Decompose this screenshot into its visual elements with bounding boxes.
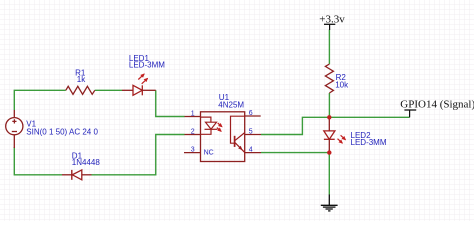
svg-text:4N25M: 4N25M bbox=[218, 100, 244, 109]
wire D1 to V1 bottom bbox=[14, 147, 62, 175]
op-to-coupler U1 box bbox=[201, 112, 245, 162]
ground bbox=[321, 195, 338, 211]
wire LED1 to U1 pin 1 bbox=[156, 90, 185, 116]
LED LED1 bbox=[122, 74, 156, 95]
wire V1 top to R1 bbox=[14, 90, 66, 110]
voltage source V1 bbox=[6, 110, 23, 148]
svg-text:GPIO14 (Signal): GPIO14 (Signal) bbox=[400, 99, 474, 111]
U1 internal LED bbox=[201, 117, 218, 134]
wire +3.3v to R2 bbox=[328, 30, 330, 65]
U1 pin 5 stub bbox=[245, 134, 261, 136]
svg-text:3: 3 bbox=[191, 147, 195, 154]
svg-text:10k: 10k bbox=[335, 81, 349, 90]
svg-text:1N4448: 1N4448 bbox=[72, 158, 101, 167]
svg-text:5: 5 bbox=[249, 129, 253, 136]
svg-text:LED-3MM: LED-3MM bbox=[351, 138, 387, 147]
U1 pin 3 stub bbox=[184, 152, 201, 154]
diode D1 bbox=[62, 170, 92, 180]
net label GPIO14 (Signal) bbox=[400, 99, 474, 118]
resistor R1 bbox=[66, 86, 95, 94]
resistor R2 bbox=[325, 64, 333, 93]
U1 pin 1 stub bbox=[185, 116, 201, 118]
wire U1 pin 5 to GPIO14 net bbox=[261, 117, 410, 134]
wire U1 pin 2 to D1 bbox=[92, 135, 185, 175]
svg-text:1k: 1k bbox=[77, 75, 86, 84]
wire R2 to node A bbox=[328, 93, 330, 117]
LED LED2 bbox=[324, 117, 346, 152]
svg-text:6: 6 bbox=[249, 110, 253, 117]
svg-text:LED-3MM: LED-3MM bbox=[129, 61, 165, 70]
power flag +3.3v bbox=[319, 14, 345, 30]
svg-text:NC: NC bbox=[204, 150, 214, 157]
svg-text:4: 4 bbox=[249, 147, 253, 154]
svg-text:1: 1 bbox=[191, 111, 195, 118]
U1 pin 2 stub bbox=[185, 134, 201, 136]
svg-text:2: 2 bbox=[191, 129, 195, 136]
U1 pin 6 stub bbox=[245, 115, 261, 117]
U1 internal emission arrows bbox=[218, 123, 222, 127]
U1 pin 4 stub bbox=[245, 152, 261, 154]
junction node A (R2/LED2/GPIO14) bbox=[327, 115, 331, 119]
wire U1 pin 4 to LED2 cathode node bbox=[261, 152, 329, 154]
wire LED2 to ground bbox=[328, 153, 330, 195]
U1 internal phototransistor bbox=[231, 116, 245, 152]
junction node B (LED2/pin4/ground) bbox=[327, 150, 331, 154]
wire R1 to LED1 bbox=[95, 89, 122, 91]
svg-text:SIN(0 1 50) AC 24 0: SIN(0 1 50) AC 24 0 bbox=[26, 128, 98, 137]
